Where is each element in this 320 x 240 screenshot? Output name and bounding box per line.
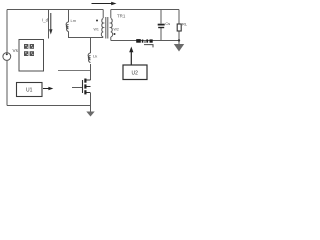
transformer secondary winding	[111, 19, 113, 37]
current arrow primary (top, right-pointing)	[92, 2, 117, 5]
svg-text:RL: RL	[182, 22, 188, 27]
control unit box	[19, 40, 44, 72]
wire Lm top lead	[68, 10, 70, 23]
current arrow I1 (down)	[49, 13, 52, 35]
inductor Lm	[66, 22, 68, 32]
wire left vertical upper	[6, 10, 8, 53]
driver block U1	[17, 83, 43, 97]
wire transformer secondary top pin	[110, 10, 112, 19]
wire Lk bottom lead to drain	[90, 64, 92, 80]
resistor RL	[177, 24, 181, 31]
current arrow secondary (up)	[129, 47, 133, 66]
diode VD1 label on secondary rail	[136, 39, 153, 43]
label 单元 line2 (drawn glyph blocks)	[24, 51, 34, 56]
svg-text:Cs: Cs	[165, 21, 170, 26]
ground (below MOSFET source)	[86, 112, 94, 117]
voltage source Vs circle	[3, 53, 11, 61]
wire top rail left	[7, 9, 103, 11]
node junction secondary ground	[178, 39, 180, 41]
svg-text:U1: U1	[26, 88, 33, 94]
svg-text:I_d: I_d	[42, 18, 49, 23]
wire control drop	[48, 10, 50, 39]
transistor Q1 MOSFET	[83, 79, 91, 95]
svg-text:Lk: Lk	[93, 54, 97, 59]
wire capacitor bottom lead	[160, 28, 162, 41]
label 数位 line1 (drawn glyph blocks)	[24, 44, 34, 49]
wire drain node stub	[58, 70, 91, 72]
wire transformer primary top pin	[102, 10, 104, 19]
svg-text:TR1: TR1	[117, 14, 126, 19]
svg-text:W2: W2	[114, 28, 119, 32]
wire left vertical lower	[6, 60, 8, 105]
signal arrow from U1	[43, 87, 53, 90]
wire bottom rail	[7, 105, 91, 107]
inductor Lk	[88, 53, 90, 63]
svg-text:W1: W1	[94, 28, 99, 32]
polarity dot secondary	[114, 33, 116, 35]
wire MOSFET source to ground	[90, 93, 92, 112]
wire right vertical top (to RL)	[178, 10, 180, 25]
wire Lk top lead	[90, 38, 92, 54]
feedback block U2	[123, 65, 147, 80]
wire ground drop right	[178, 41, 180, 46]
wire capacitor top lead	[160, 10, 162, 24]
svg-text:Vs: Vs	[13, 48, 19, 53]
polarity dot primary	[96, 20, 98, 22]
wire RL bottom lead	[178, 31, 180, 41]
transformer core	[106, 17, 108, 39]
wire gate lead	[72, 87, 83, 89]
svg-text:Lm: Lm	[71, 18, 77, 23]
diode VD1 bracket	[144, 45, 153, 48]
wire top rail right	[111, 9, 179, 11]
transformer TR1 primary winding	[101, 19, 103, 37]
capacitor Cs	[158, 24, 165, 28]
ground (secondary)	[174, 44, 184, 52]
svg-text:U2: U2	[132, 71, 139, 77]
wire transformer secondary bottom pin	[110, 37, 112, 41]
wire Lm bottom lead and node rail	[69, 32, 104, 38]
wire secondary bottom rail	[111, 40, 179, 42]
